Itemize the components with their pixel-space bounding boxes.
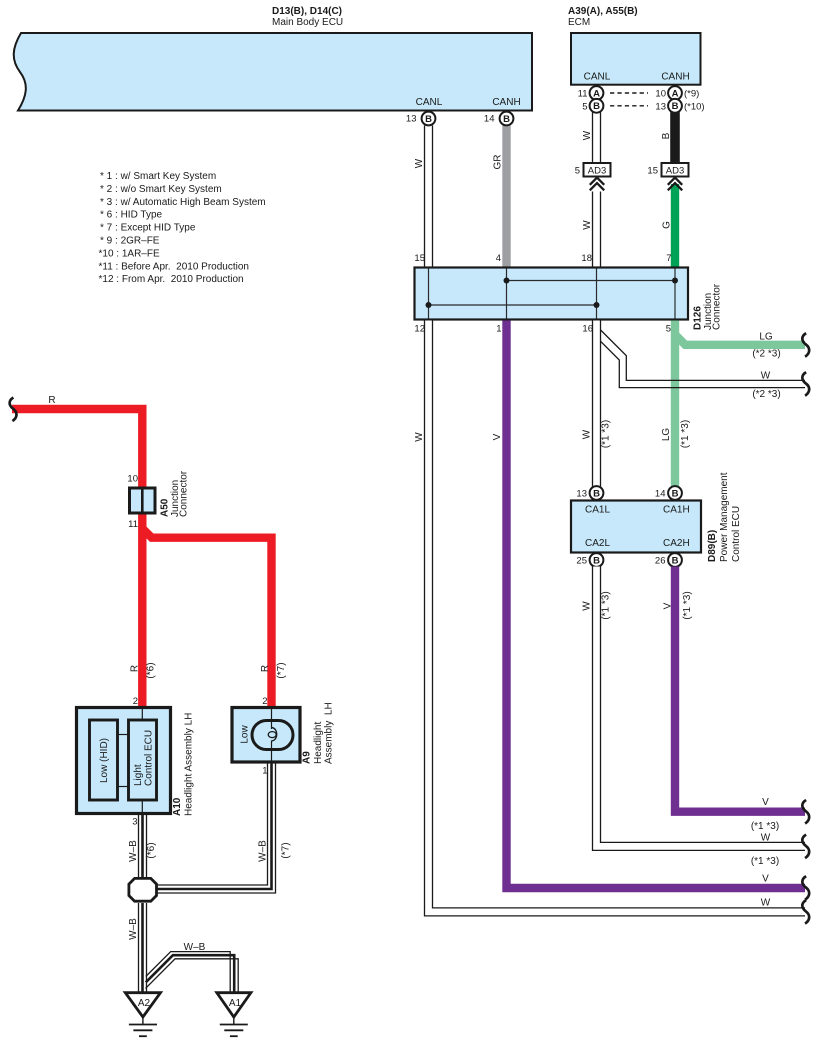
octagon junction [129, 878, 157, 901]
svg-text:B: B [593, 555, 600, 566]
wire W-B from octagon down to ground A2 [138, 903, 147, 993]
svg-text:W: W [414, 432, 425, 442]
svg-text:16: 16 [582, 324, 593, 335]
squiggle at W (*1 *3) wire right end [802, 835, 809, 859]
svg-text:A9: A9 [302, 751, 313, 764]
svg-text:CA2L: CA2L [585, 538, 610, 549]
svg-text:12: 12 [414, 324, 425, 335]
junction connector D126 box [415, 268, 689, 320]
svg-text:CANL: CANL [416, 97, 443, 108]
svg-text:(*2 *3): (*2 *3) [752, 389, 780, 400]
svg-text:Headlight: Headlight [313, 722, 324, 764]
svg-text:(*6): (*6) [146, 842, 157, 858]
svg-text:15: 15 [647, 165, 658, 176]
svg-text:* 2 : w/o Smart Key System: * 2 : w/o Smart Key System [100, 184, 222, 195]
svg-text:W–B: W–B [258, 840, 269, 862]
svg-text:7: 7 [666, 253, 671, 264]
svg-text:AD3: AD3 [666, 165, 684, 176]
svg-text:A: A [672, 88, 679, 99]
svg-text:GR: GR [493, 155, 504, 170]
svg-text:A2: A2 [138, 998, 151, 1009]
svg-text:CANH: CANH [661, 72, 689, 83]
svg-text:* 9 : 2GR–FE: * 9 : 2GR–FE [100, 236, 160, 247]
note list [99, 171, 266, 285]
pin 5 circle B on ECM CANL [582, 99, 603, 113]
links between Low(HID) and Light Control ECU [118, 734, 129, 736]
svg-text:B: B [661, 132, 672, 139]
svg-text:18: 18 [581, 253, 592, 264]
svg-text:R: R [130, 665, 141, 672]
bulb wire stub in A9 [271, 709, 273, 729]
pin 13 circle B on D89 [576, 486, 603, 500]
wire stub inside A10 top [141, 709, 143, 720]
svg-text:R: R [260, 665, 271, 672]
wire continuation squiggle at R wire left end [10, 398, 17, 422]
svg-text:W: W [582, 220, 593, 230]
svg-text:2: 2 [133, 696, 138, 707]
headlight assembly A10 box [77, 708, 171, 814]
svg-text:* 1 : w/ Smart Key System: * 1 : w/ Smart Key System [100, 171, 216, 182]
svg-text:* 3 : w/ Automatic High Beam S: * 3 : w/ Automatic High Beam System [100, 197, 266, 208]
svg-text:(*1 *3): (*1 *3) [682, 591, 693, 619]
svg-text:CA1H: CA1H [663, 505, 690, 516]
svg-text:26: 26 [655, 556, 666, 567]
wire LG branch from pin 5 to right edge [675, 335, 805, 345]
svg-text:5: 5 [575, 165, 580, 176]
pin 13 circle B on ECM CANH [655, 99, 681, 113]
D126 internal pin lines [429, 269, 676, 319]
svg-text:A39(A), A55(B): A39(A), A55(B) [568, 6, 638, 17]
wire W-B from A9 pin 1 to octagon junction [157, 762, 272, 889]
svg-text:A: A [593, 88, 600, 99]
svg-text:Assembly LH: Assembly LH [324, 702, 335, 764]
svg-text:(*1 *3): (*1 *3) [680, 420, 691, 448]
svg-text:CA1L: CA1L [585, 505, 610, 516]
dashed link between pin 5 and pin 13 [610, 105, 648, 107]
svg-text:B: B [672, 488, 679, 499]
junction connector A50 [130, 488, 156, 513]
svg-text:(*7): (*7) [281, 842, 292, 858]
svg-text:V: V [663, 602, 674, 609]
pin 25 circle B on D89 [576, 553, 603, 567]
squiggle at W bottom wire right end [802, 900, 809, 924]
pin 26 circle B on D89 [655, 553, 682, 567]
connector 15 AD3 [647, 163, 688, 177]
Low (HID) inner box [90, 720, 118, 800]
svg-text:5: 5 [582, 101, 587, 112]
svg-text:D126: D126 [693, 306, 704, 330]
svg-text:*12 : From Apr. 2010 Producti: *12 : From Apr. 2010 Production [99, 274, 244, 285]
svg-text:*11 : Before Apr. 2010 Produc: *11 : Before Apr. 2010 Production [99, 261, 249, 272]
wire B from ECM CANH pin 13(B) to AD3 [670, 110, 680, 164]
svg-text:B: B [593, 488, 600, 499]
wire W from D126 pin 16 to D89 pin 13 [592, 321, 601, 487]
pin 14 circle B on D89 [655, 486, 682, 500]
svg-text:11: 11 [128, 519, 138, 530]
svg-text:* 7 : Except HID Type: * 7 : Except HID Type [100, 223, 196, 234]
svg-text:D89(B): D89(B) [707, 530, 718, 562]
svg-text:Low (HID): Low (HID) [99, 738, 110, 783]
svg-text:B: B [672, 101, 679, 112]
svg-text:(*1 *3): (*1 *3) [751, 856, 779, 867]
svg-text:W: W [582, 601, 593, 611]
ECU D13/D14 Main Body ECU box [14, 33, 532, 111]
svg-text:(*6): (*6) [146, 662, 157, 678]
svg-text:A50: A50 [160, 498, 171, 517]
D126 pin numbers top: 15 4 18 7 [414, 253, 671, 264]
svg-text:5: 5 [666, 324, 671, 335]
shield chevrons below 5 AD3 [590, 178, 604, 191]
bulb capsule [252, 721, 293, 750]
pin 11 circle A on ECM CANL [578, 86, 604, 100]
svg-text:Low: Low [240, 725, 251, 744]
svg-text:W–B: W–B [128, 840, 139, 862]
wire W from AD3 to D126 pin 18 [592, 192, 601, 268]
svg-text:(*9): (*9) [684, 88, 699, 99]
wire W branch from pin 16 to right edge (two open lines) [601, 330, 805, 388]
svg-text:A1: A1 [229, 998, 242, 1009]
svg-text:Headlight Assembly LH: Headlight Assembly LH [184, 713, 195, 816]
svg-text:10: 10 [127, 474, 138, 485]
svg-text:* 6 : HID Type: * 6 : HID Type [100, 210, 163, 221]
D126 pin numbers bottom: 12 1 16 5 [414, 324, 671, 335]
svg-text:Control ECU: Control ECU [144, 730, 155, 786]
svg-text:3: 3 [132, 817, 137, 828]
pin 14 circle B on main body ECU [484, 112, 513, 126]
svg-text:W–B: W–B [184, 942, 206, 953]
svg-text:(*2 *3): (*2 *3) [752, 349, 780, 360]
squiggle at V (*1 *3) wire right end [802, 800, 809, 824]
pin 10 circle A on ECM CANH [655, 86, 681, 100]
svg-text:B: B [593, 101, 600, 112]
svg-text:R: R [48, 395, 55, 406]
headlight assembly A9 box [232, 708, 300, 763]
svg-text:13: 13 [576, 489, 587, 500]
svg-text:Light: Light [133, 764, 144, 786]
wire W from main body CANL pin 13 to D126 pin 15 [424, 126, 433, 268]
svg-text:Main Body ECU: Main Body ECU [272, 17, 343, 28]
svg-text:2: 2 [262, 696, 267, 707]
svg-text:4: 4 [496, 253, 501, 264]
svg-text:D13(B), D14(C): D13(B), D14(C) [272, 6, 342, 17]
svg-text:Power Management: Power Management [719, 472, 730, 562]
wire W-B from A10 pin 3 to octagon junction [138, 814, 147, 878]
svg-text:14: 14 [655, 489, 666, 500]
svg-text:(*1 *3): (*1 *3) [751, 821, 779, 832]
svg-text:(*1 *3): (*1 *3) [601, 420, 612, 448]
svg-text:W: W [761, 833, 771, 844]
wire W from D126 pin 12 down and right to cowl (bottom W) [429, 321, 806, 912]
ground A1 [217, 993, 251, 1036]
svg-text:CANH: CANH [492, 97, 520, 108]
svg-text:13: 13 [406, 114, 417, 125]
svg-text:W: W [414, 158, 425, 168]
wire G from AD3 to D126 pin 7 [671, 184, 679, 267]
ground A2 [125, 993, 160, 1036]
shield chevrons below 15 AD3 [668, 178, 682, 191]
svg-text:*10 : 1AR–FE: *10 : 1AR–FE [99, 248, 160, 259]
wire GR from main body CANH pin 14 to D126 pin 4 [502, 126, 510, 268]
Light Control ECU inner box [129, 720, 157, 800]
wire W-B branch to ground A1 [146, 952, 239, 993]
svg-text:V: V [762, 797, 769, 808]
squiggle at V wire right end [802, 876, 809, 900]
wire LG from D126 pin 5 to D89 pin 14 [671, 321, 679, 487]
svg-text:11: 11 [578, 88, 588, 99]
svg-text:W: W [582, 429, 593, 439]
svg-text:W: W [582, 130, 593, 140]
svg-text:(*7): (*7) [276, 662, 287, 678]
svg-text:1: 1 [262, 766, 267, 777]
wire V from D126 pin 1 down and right [507, 321, 806, 889]
ECU D89(B) Power Management Control ECU box [571, 501, 701, 553]
svg-text:B: B [503, 114, 510, 125]
svg-text:G: G [662, 221, 673, 229]
svg-text:13: 13 [655, 101, 666, 112]
svg-text:LG: LG [661, 428, 672, 442]
svg-text:1: 1 [496, 324, 501, 335]
svg-text:Connector: Connector [712, 283, 723, 330]
wire W from ECM CANL pin 5(B) to AD3 [592, 110, 601, 164]
svg-text:15: 15 [414, 253, 425, 264]
svg-text:ECM: ECM [568, 17, 590, 28]
svg-text:B: B [425, 114, 432, 125]
wire R from left edge to A10 pin 2 [12, 409, 142, 708]
svg-text:10: 10 [655, 88, 666, 99]
ECU A39/A55 ECM box [571, 33, 701, 85]
wire stub inside A10 bottom [141, 800, 143, 812]
svg-text:A10: A10 [172, 797, 183, 816]
dashed link between pin 11 and pin 10 [610, 92, 648, 94]
svg-text:(*10): (*10) [684, 101, 705, 112]
D126 junction dots [426, 278, 679, 309]
wire W from D89 pin 25 down and right [597, 567, 806, 847]
bulb filament [272, 728, 277, 742]
svg-text:V: V [762, 874, 769, 885]
svg-text:W: W [761, 898, 771, 909]
pin 13 circle B on main body ECU [406, 112, 435, 126]
svg-text:V: V [492, 433, 503, 440]
squiggle at W (*2 *3) wire right end [802, 372, 809, 396]
svg-text:CA2H: CA2H [663, 538, 690, 549]
svg-text:LG: LG [759, 332, 773, 343]
squiggle at LG wire right end [802, 333, 809, 357]
svg-text:CANL: CANL [584, 72, 611, 83]
svg-text:Connector: Connector [179, 470, 190, 517]
svg-text:AD3: AD3 [588, 165, 606, 176]
svg-text:B: B [672, 555, 679, 566]
svg-text:W–B: W–B [128, 918, 139, 940]
wire R branch from A50 pin 11 to A9 pin 2 [142, 528, 271, 708]
svg-text:(*1 *3): (*1 *3) [601, 591, 612, 619]
connector 5 AD3 [575, 163, 611, 177]
svg-text:14: 14 [484, 114, 495, 125]
svg-text:Control ECU: Control ECU [731, 506, 742, 562]
svg-text:25: 25 [576, 556, 587, 567]
wire V from D89 pin 26 down and right [675, 567, 805, 812]
svg-text:W: W [761, 371, 771, 382]
